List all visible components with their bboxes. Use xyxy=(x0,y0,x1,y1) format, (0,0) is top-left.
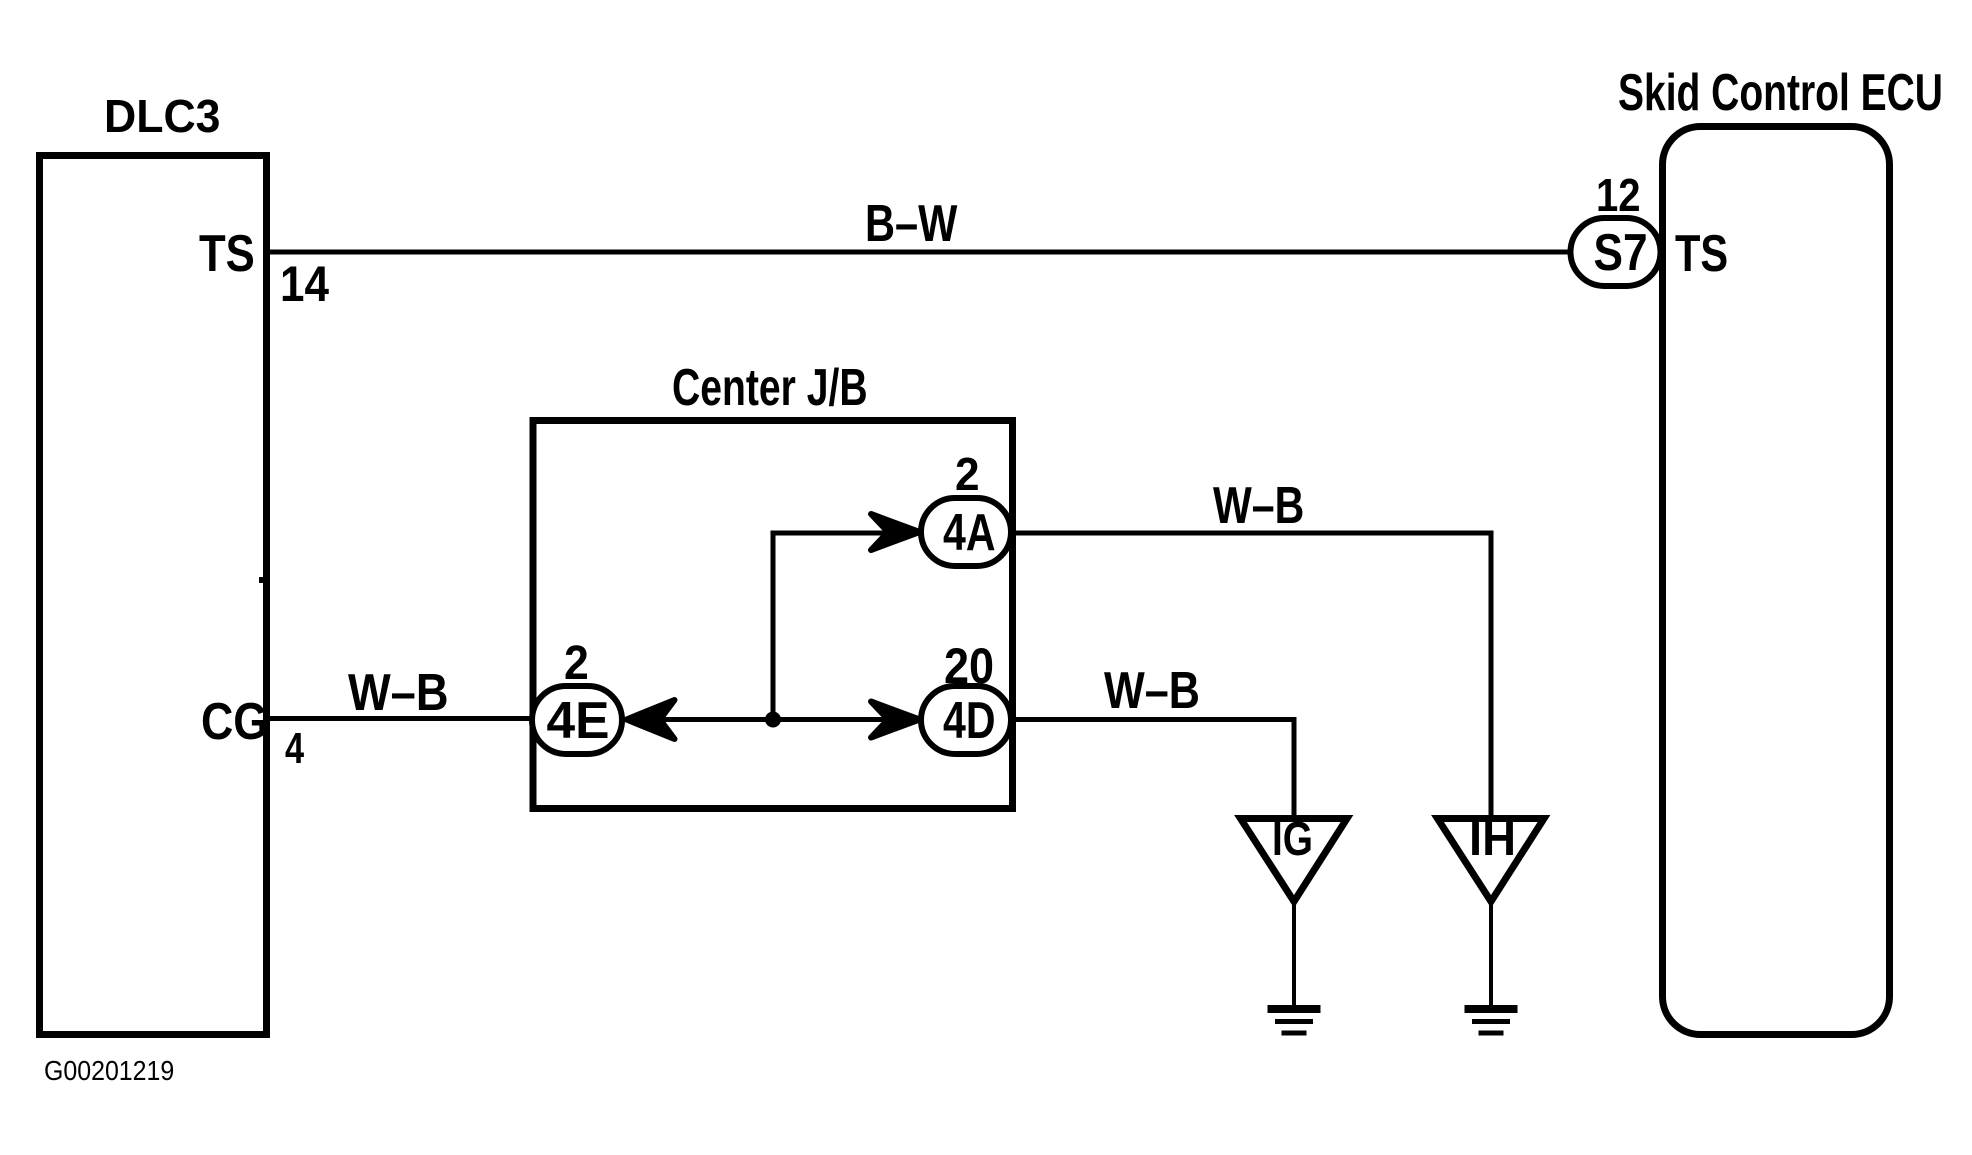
svg-text:W–B: W–B xyxy=(1213,476,1304,534)
svg-text:14: 14 xyxy=(280,255,329,311)
svg-text:S7: S7 xyxy=(1594,224,1648,282)
wire IG triangle apex to ground xyxy=(1292,898,1296,1008)
svg-text:2: 2 xyxy=(564,636,589,690)
svg-text:Skid Control ECU: Skid Control ECU xyxy=(1618,62,1943,121)
wire IH triangle apex to ground xyxy=(1489,898,1493,1008)
ground symbol under IH xyxy=(1465,1009,1518,1033)
svg-text:CG: CG xyxy=(201,693,268,751)
svg-text:4E: 4E xyxy=(547,691,610,749)
junction block Center J/B xyxy=(533,421,1013,809)
wire CG W-B (DLC3 pin 4 to 4E) xyxy=(266,716,533,721)
wire TS B-W (DLC3 pin 14 to S7) xyxy=(266,250,1572,255)
svg-text:12: 12 xyxy=(1596,170,1641,221)
ECU block Skid Control ECU xyxy=(1663,127,1890,1035)
svg-text:TS: TS xyxy=(1675,224,1728,283)
wire branch vertical (junction up to 4A row) xyxy=(771,533,776,720)
svg-text:2: 2 xyxy=(955,448,980,500)
wire W-B from 4A to IH drop xyxy=(1011,533,1491,817)
junction node dot xyxy=(765,712,781,728)
svg-text:4A: 4A xyxy=(943,503,996,561)
svg-text:20: 20 xyxy=(944,639,994,695)
ground triangle IH xyxy=(1438,819,1545,902)
connector 4A xyxy=(921,498,1011,566)
wire branch horizontal to 4A xyxy=(771,531,921,536)
svg-text:TS: TS xyxy=(199,226,255,283)
connector block DLC3 xyxy=(40,156,267,1035)
arrow into 4E (pointing left) xyxy=(627,700,675,739)
svg-text:IG: IG xyxy=(1272,812,1313,866)
svg-text:IH: IH xyxy=(1469,813,1516,867)
ground symbol under IG xyxy=(1268,1009,1321,1033)
svg-text:4D: 4D xyxy=(943,691,996,749)
svg-text:W–B: W–B xyxy=(348,664,448,722)
connector 4E xyxy=(532,686,622,754)
svg-text:B–W: B–W xyxy=(865,194,958,253)
arrow into 4D (pointing right) xyxy=(871,702,920,738)
svg-text:DLC3: DLC3 xyxy=(104,90,220,142)
connector 4D xyxy=(921,686,1011,754)
wire W-B from 4D to IG drop xyxy=(1011,720,1294,818)
svg-text:4: 4 xyxy=(285,724,304,773)
svg-text:W–B: W–B xyxy=(1104,662,1200,720)
arrow into 4A (pointing right) xyxy=(871,514,920,550)
ground triangle IG xyxy=(1241,819,1348,902)
svg-text:Center J/B: Center J/B xyxy=(672,358,868,417)
connector S7 xyxy=(1571,218,1661,286)
wire inside Center J/B (4E to 4D) xyxy=(628,717,920,722)
stray scan dot xyxy=(259,577,263,583)
svg-text:G00201219: G00201219 xyxy=(44,1055,174,1087)
